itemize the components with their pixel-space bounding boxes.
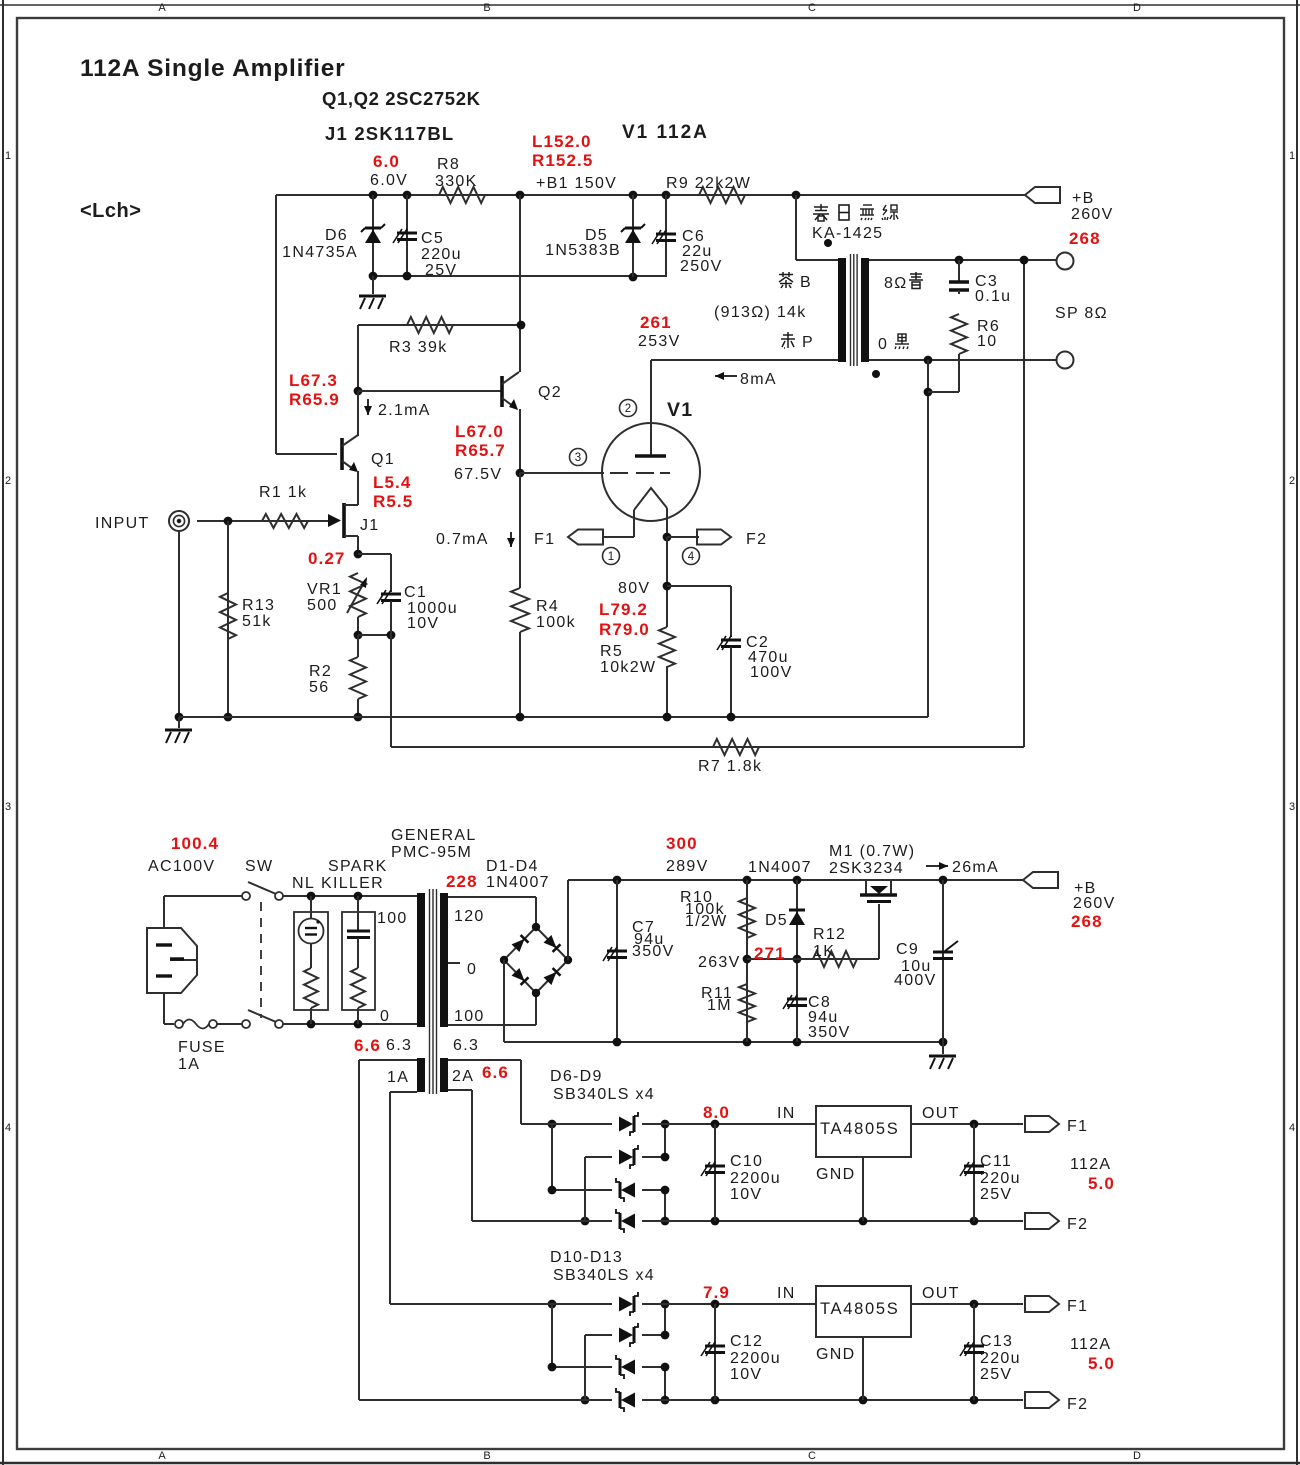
svg-text:D1-D4: D1-D4 xyxy=(486,858,539,875)
svg-text:1N4007: 1N4007 xyxy=(486,874,550,891)
svg-text:2A: 2A xyxy=(452,1068,474,1085)
svg-text:80V: 80V xyxy=(618,580,650,597)
svg-text:B: B xyxy=(483,2,490,14)
svg-text:R152.5: R152.5 xyxy=(532,151,593,170)
svg-text:220u: 220u xyxy=(980,1170,1021,1187)
svg-text:D: D xyxy=(1133,1450,1141,1462)
svg-text:268: 268 xyxy=(1071,912,1103,931)
svg-text:100: 100 xyxy=(454,1008,485,1025)
svg-text:SB340LS x4: SB340LS x4 xyxy=(553,1267,655,1284)
svg-text:V1: V1 xyxy=(667,399,693,421)
svg-text:1: 1 xyxy=(1289,150,1295,162)
svg-text:<Lch>: <Lch> xyxy=(80,200,141,222)
svg-text:3: 3 xyxy=(575,452,581,464)
svg-text:4: 4 xyxy=(1289,1122,1295,1134)
svg-text:6.3: 6.3 xyxy=(386,1037,412,1054)
svg-text:0: 0 xyxy=(878,336,888,353)
svg-text:Q1,Q2 2SC2752K: Q1,Q2 2SC2752K xyxy=(322,88,481,109)
svg-text:220u: 220u xyxy=(421,246,462,263)
svg-text:112A: 112A xyxy=(1070,1336,1111,1353)
svg-text:KA-1425: KA-1425 xyxy=(812,225,883,242)
svg-text:4: 4 xyxy=(5,1122,11,1134)
svg-text:1/2W: 1/2W xyxy=(685,913,728,930)
svg-text:330K: 330K xyxy=(435,173,478,190)
svg-text:6.6: 6.6 xyxy=(482,1063,509,1082)
svg-text:0: 0 xyxy=(467,961,477,978)
svg-text:112A Single Amplifier: 112A Single Amplifier xyxy=(80,55,346,82)
svg-text:V1 112A: V1 112A xyxy=(622,122,709,143)
svg-text:SB340LS x4: SB340LS x4 xyxy=(553,1086,655,1103)
svg-text:R5.5: R5.5 xyxy=(373,492,413,511)
svg-text:A: A xyxy=(158,2,166,14)
svg-text:C5: C5 xyxy=(421,230,444,247)
svg-text:0.1u: 0.1u xyxy=(975,288,1011,305)
svg-text:+B1 150V: +B1 150V xyxy=(536,175,617,192)
svg-text:350V: 350V xyxy=(808,1024,851,1041)
svg-text:B: B xyxy=(483,1450,490,1462)
svg-text:1M: 1M xyxy=(707,997,732,1014)
svg-text:250V: 250V xyxy=(680,258,723,275)
svg-text:F2: F2 xyxy=(1067,1216,1088,1233)
svg-text:R3 39k: R3 39k xyxy=(389,339,448,356)
svg-text:6.0: 6.0 xyxy=(373,152,400,171)
svg-text:25V: 25V xyxy=(980,1366,1012,1383)
svg-text:R1 1k: R1 1k xyxy=(259,484,307,501)
svg-text:500: 500 xyxy=(307,597,338,614)
svg-text:260V: 260V xyxy=(1071,206,1114,223)
svg-text:GND: GND xyxy=(816,1346,855,1363)
svg-text:D6-D9: D6-D9 xyxy=(550,1068,603,1085)
svg-text:5.0: 5.0 xyxy=(1088,1354,1115,1373)
svg-text:D: D xyxy=(1133,2,1141,14)
svg-text:C9: C9 xyxy=(896,941,919,958)
svg-text:SP 8Ω: SP 8Ω xyxy=(1055,305,1108,322)
svg-text:120: 120 xyxy=(454,908,485,925)
svg-text:2SK3234: 2SK3234 xyxy=(829,860,904,877)
svg-text:1A: 1A xyxy=(387,1069,409,1086)
svg-text:1N4007: 1N4007 xyxy=(748,859,812,876)
svg-text:VR1: VR1 xyxy=(307,581,342,598)
svg-text:1: 1 xyxy=(608,551,614,563)
svg-text:2: 2 xyxy=(625,403,631,415)
svg-text:FUSE: FUSE xyxy=(178,1039,226,1056)
svg-text:C11: C11 xyxy=(980,1153,1012,1170)
svg-text:0.7mA: 0.7mA xyxy=(436,531,489,548)
svg-text:0.27: 0.27 xyxy=(308,549,346,568)
svg-text:263V: 263V xyxy=(698,954,741,971)
svg-text:5.0: 5.0 xyxy=(1088,1174,1115,1193)
svg-text:100k: 100k xyxy=(536,614,576,631)
svg-text:OUT: OUT xyxy=(922,1105,960,1122)
svg-text:8.0: 8.0 xyxy=(703,1103,730,1122)
svg-text:B: B xyxy=(800,274,812,291)
svg-text:R65.7: R65.7 xyxy=(455,441,506,460)
svg-text:F1: F1 xyxy=(1067,1298,1088,1315)
svg-text:J1: J1 xyxy=(360,517,380,534)
svg-text:2: 2 xyxy=(1289,475,1295,487)
svg-text:100.4: 100.4 xyxy=(171,834,219,853)
svg-text:261: 261 xyxy=(640,313,672,332)
svg-text:6.3: 6.3 xyxy=(453,1037,479,1054)
svg-text:51k: 51k xyxy=(242,613,272,630)
svg-text:R4: R4 xyxy=(536,598,559,615)
svg-text:228: 228 xyxy=(446,872,478,891)
svg-text:GENERAL: GENERAL xyxy=(391,827,477,844)
svg-text:AC100V: AC100V xyxy=(148,858,215,875)
svg-text:7.9: 7.9 xyxy=(703,1283,730,1302)
svg-text:R8: R8 xyxy=(437,156,460,173)
svg-text:10V: 10V xyxy=(730,1366,762,1383)
svg-text:C12: C12 xyxy=(730,1333,763,1350)
svg-text:253V: 253V xyxy=(638,333,681,350)
svg-text:C10: C10 xyxy=(730,1153,763,1170)
svg-text:8Ω: 8Ω xyxy=(884,275,907,292)
svg-text:R5: R5 xyxy=(600,643,623,660)
svg-text:A: A xyxy=(158,1450,166,1462)
svg-text:10: 10 xyxy=(977,333,997,350)
svg-text:L67.3: L67.3 xyxy=(289,371,338,390)
svg-text:KILLER: KILLER xyxy=(321,875,384,892)
svg-text:112A: 112A xyxy=(1070,1156,1111,1173)
svg-text:SPARK: SPARK xyxy=(328,858,388,875)
svg-text:L67.0: L67.0 xyxy=(455,422,504,441)
svg-text:100: 100 xyxy=(377,910,408,927)
svg-text:8mA: 8mA xyxy=(740,371,777,388)
svg-text:25V: 25V xyxy=(425,262,457,279)
svg-text:OUT: OUT xyxy=(922,1285,960,1302)
svg-text:289V: 289V xyxy=(666,858,709,875)
svg-text:2200u: 2200u xyxy=(730,1350,781,1367)
svg-text:271: 271 xyxy=(754,944,786,963)
svg-text:220u: 220u xyxy=(980,1350,1021,1367)
svg-text:F1: F1 xyxy=(1067,1118,1088,1135)
svg-text:+B: +B xyxy=(1072,190,1095,207)
svg-text:R13: R13 xyxy=(242,597,275,614)
svg-text:Q1: Q1 xyxy=(371,451,395,468)
svg-text:C: C xyxy=(808,2,816,14)
svg-text:25V: 25V xyxy=(980,1186,1012,1203)
svg-text:F1: F1 xyxy=(534,531,555,548)
svg-text:IN: IN xyxy=(777,1105,796,1122)
svg-text:4: 4 xyxy=(688,551,695,563)
svg-text:TA4805S: TA4805S xyxy=(820,1300,899,1318)
svg-text:1N5383B: 1N5383B xyxy=(545,242,621,259)
svg-text:D10-D13: D10-D13 xyxy=(550,1249,623,1266)
svg-text:R7 1.8k: R7 1.8k xyxy=(698,758,762,775)
svg-text:TA4805S: TA4805S xyxy=(820,1120,899,1138)
svg-text:GND: GND xyxy=(816,1166,855,1183)
svg-text:6.6: 6.6 xyxy=(354,1036,381,1055)
svg-text:26mA: 26mA xyxy=(952,859,999,876)
svg-text:INPUT: INPUT xyxy=(95,515,150,532)
svg-text:6.0V: 6.0V xyxy=(370,172,408,189)
svg-text:3: 3 xyxy=(5,801,11,813)
svg-text:1K: 1K xyxy=(813,943,835,960)
svg-text:2.1mA: 2.1mA xyxy=(378,402,431,419)
svg-text:L152.0: L152.0 xyxy=(532,132,592,151)
svg-text:IN: IN xyxy=(777,1285,796,1302)
svg-text:D6: D6 xyxy=(325,227,348,244)
svg-text:R79.0: R79.0 xyxy=(599,620,650,639)
svg-text:C13: C13 xyxy=(980,1333,1013,1350)
svg-text:F2: F2 xyxy=(1067,1396,1088,1413)
svg-text:400V: 400V xyxy=(894,972,937,989)
svg-text:C1: C1 xyxy=(404,584,427,601)
svg-text:3: 3 xyxy=(1289,801,1295,813)
svg-text:1: 1 xyxy=(5,150,11,162)
svg-text:100V: 100V xyxy=(750,664,793,681)
svg-text:D5: D5 xyxy=(765,912,788,929)
svg-text:L5.4: L5.4 xyxy=(373,473,411,492)
svg-text:0: 0 xyxy=(380,1008,390,1025)
svg-text:10k2W: 10k2W xyxy=(600,659,656,676)
svg-text:P: P xyxy=(802,334,814,351)
svg-text:F2: F2 xyxy=(746,531,767,548)
svg-text:(913Ω) 14k: (913Ω) 14k xyxy=(714,304,807,321)
svg-text:1N4735A: 1N4735A xyxy=(282,244,358,261)
svg-text:260V: 260V xyxy=(1073,895,1116,912)
svg-text:NL: NL xyxy=(292,875,315,892)
svg-text:R2: R2 xyxy=(309,663,332,680)
svg-text:67.5V: 67.5V xyxy=(454,466,502,483)
svg-text:L79.2: L79.2 xyxy=(599,600,648,619)
svg-text:10V: 10V xyxy=(730,1186,762,1203)
svg-text:R9 22k2W: R9 22k2W xyxy=(666,175,751,192)
svg-text:268: 268 xyxy=(1069,229,1101,248)
svg-text:R65.9: R65.9 xyxy=(289,390,340,409)
svg-text:350V: 350V xyxy=(632,943,675,960)
svg-text:1A: 1A xyxy=(178,1056,200,1073)
svg-text:R12: R12 xyxy=(813,926,846,943)
svg-text:M1 (0.7W): M1 (0.7W) xyxy=(829,843,915,860)
svg-text:SW: SW xyxy=(245,858,273,875)
svg-text:C: C xyxy=(808,1450,816,1462)
svg-text:56: 56 xyxy=(309,679,329,696)
svg-text:2: 2 xyxy=(5,475,11,487)
svg-text:J1 2SK117BL: J1 2SK117BL xyxy=(325,123,454,144)
svg-text:Q2: Q2 xyxy=(538,384,562,401)
svg-text:300: 300 xyxy=(666,834,698,853)
svg-text:PMC-95M: PMC-95M xyxy=(391,844,472,861)
svg-text:2200u: 2200u xyxy=(730,1170,781,1187)
svg-text:10V: 10V xyxy=(407,615,439,632)
